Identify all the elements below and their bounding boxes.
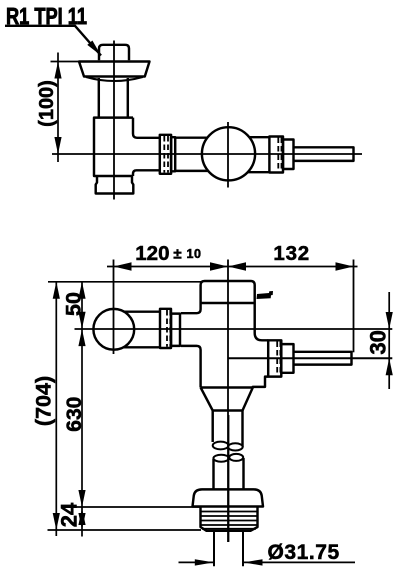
svg-text:24: 24 xyxy=(56,502,81,527)
svg-text:50: 50 xyxy=(62,292,86,316)
svg-text:±: ± xyxy=(173,245,181,262)
svg-text:Ø31.75: Ø31.75 xyxy=(268,541,340,564)
svg-text:120: 120 xyxy=(135,242,169,265)
svg-text:132: 132 xyxy=(273,242,310,265)
svg-text:10: 10 xyxy=(187,247,202,261)
svg-text:630: 630 xyxy=(63,397,86,432)
svg-text:(100): (100) xyxy=(36,80,58,127)
svg-text:(704): (704) xyxy=(31,376,55,426)
svg-text:R1 TPI 11: R1 TPI 11 xyxy=(6,3,87,29)
svg-text:30: 30 xyxy=(365,330,390,354)
